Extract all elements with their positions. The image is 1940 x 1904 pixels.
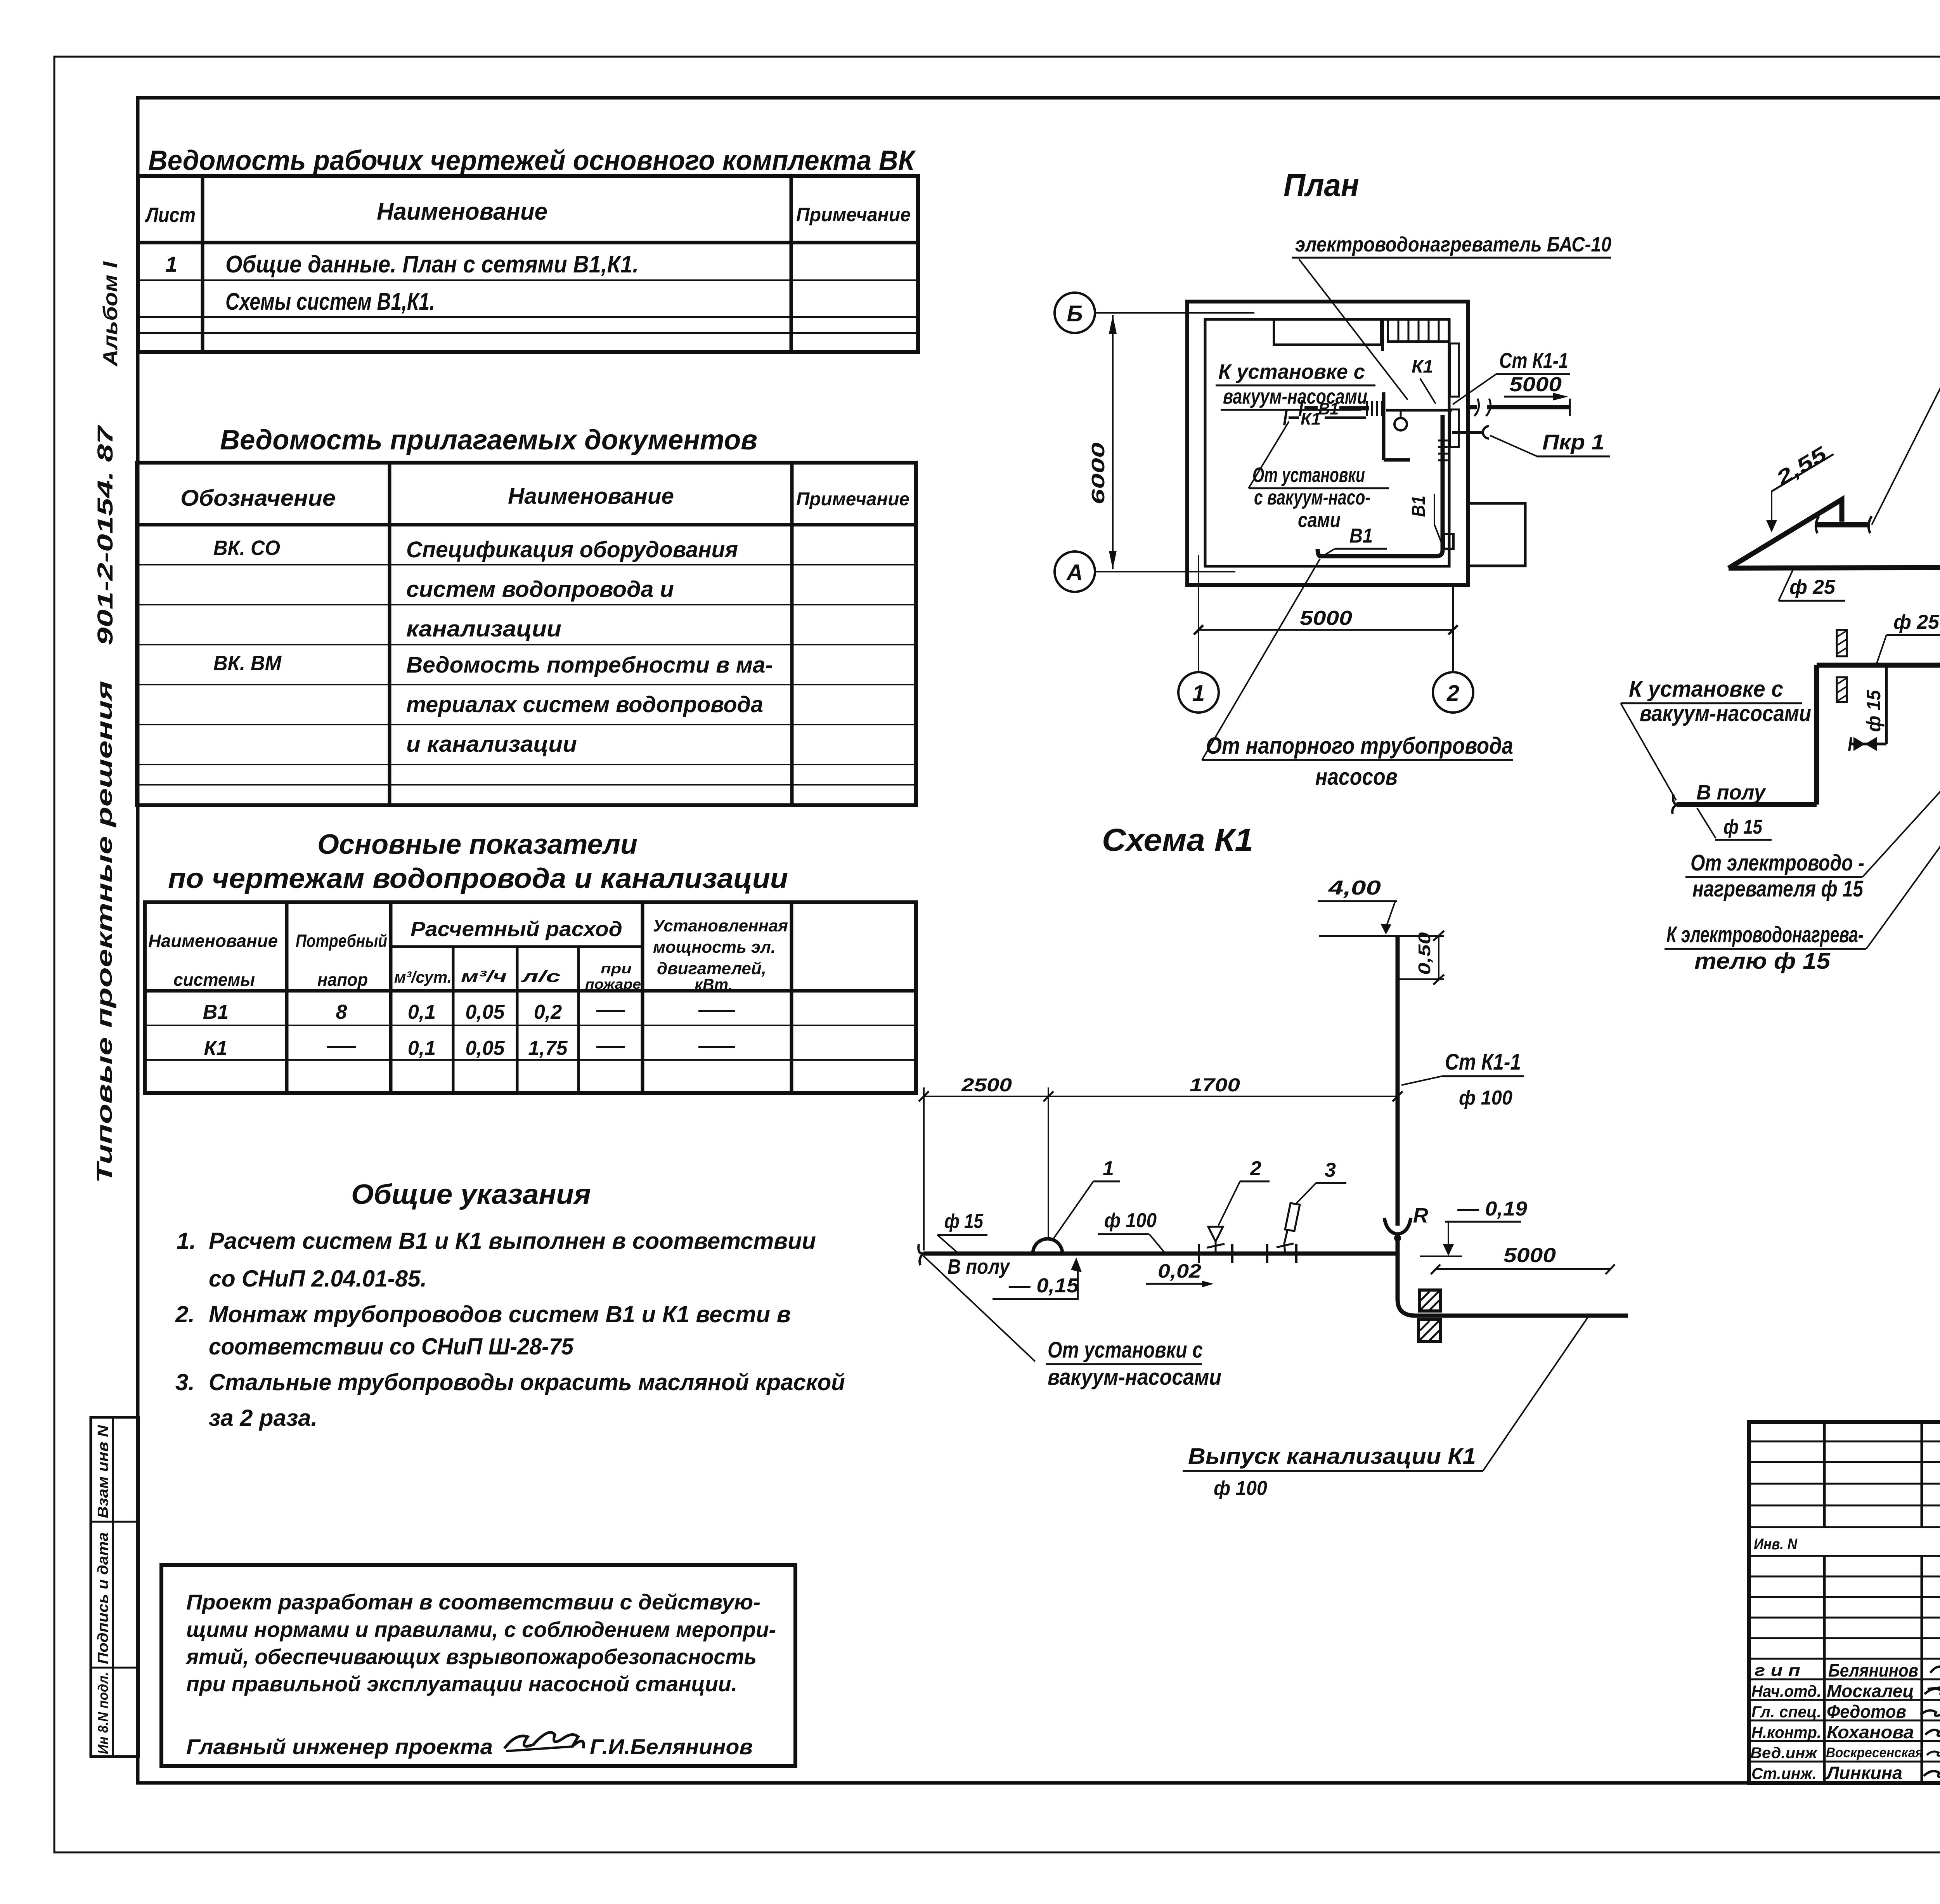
svg-text:От напорного трубопровода: От напорного трубопровода — [1206, 733, 1513, 759]
svg-text:8: 8 — [336, 1001, 347, 1023]
svg-text:0,50: 0,50 — [1415, 932, 1434, 975]
svg-text:Примечание: Примечание — [796, 204, 911, 225]
svg-text:— 0,19: — 0,19 — [1457, 1198, 1527, 1220]
right wall pilaster upper — [1450, 343, 1459, 397]
svg-text:1700: 1700 — [1190, 1075, 1240, 1096]
svg-text:ф 25: ф 25 — [1789, 576, 1836, 598]
svg-text:за 2 раза.: за 2 раза. — [209, 1405, 317, 1431]
svg-text:0,05: 0,05 — [465, 1001, 505, 1023]
right wall pilaster lower — [1450, 409, 1459, 447]
svg-text:Москалец: Москалец — [1827, 1681, 1914, 1701]
svg-text:нагревателя ф 15: нагревателя ф 15 — [1692, 876, 1864, 902]
В полу horizontal ф15 — [1677, 802, 1817, 807]
svg-text:ф 100: ф 100 — [1104, 1209, 1157, 1232]
svg-text:телю ф 15: телю ф 15 — [1694, 949, 1831, 974]
stack lower part and outlet bend — [1398, 1236, 1628, 1316]
svg-text:ф 15: ф 15 — [1723, 816, 1763, 838]
svg-text:Нач.отд.: Нач.отд. — [1751, 1682, 1821, 1700]
svg-text:0,02: 0,02 — [1158, 1260, 1201, 1282]
svg-text:А: А — [1066, 560, 1083, 585]
svg-text:5000: 5000 — [1509, 373, 1562, 396]
svg-text:R: R — [1413, 1204, 1428, 1227]
label B1 rotated on riser — [1408, 496, 1429, 517]
svg-text:1: 1 — [1192, 681, 1205, 706]
svg-text:со СНиП 2.04.01-85.: со СНиП 2.04.01-85. — [209, 1266, 427, 1292]
porch right side — [1468, 503, 1525, 566]
svg-text:К1: К1 — [204, 1037, 228, 1060]
svg-text:2: 2 — [1250, 1157, 1261, 1180]
stamp label: Взам инв N — [95, 1424, 111, 1518]
wall pass hatch upper — [1837, 630, 1847, 656]
svg-text:Воскресенская: Воскресенская — [1826, 1744, 1923, 1760]
svg-text:6000: 6000 — [1088, 442, 1108, 505]
svg-text:К установке с: К установке с — [1218, 360, 1365, 383]
svg-text:систем водопровода и: систем водопровода и — [406, 577, 674, 602]
svg-text:сами: сами — [1298, 508, 1341, 532]
svg-text:Типовые проектные решения: Типовые проектные решения — [92, 681, 116, 1183]
bench along top wall — [1274, 319, 1381, 345]
svg-text:г и п: г и п — [1755, 1661, 1800, 1679]
svg-text:Альбом I: Альбом I — [99, 261, 122, 367]
svg-text:От электроводо -: От электроводо - — [1691, 850, 1864, 876]
svg-text:м³/сут.: м³/сут. — [394, 968, 452, 986]
svg-text:ф 25: ф 25 — [1893, 611, 1940, 633]
left vertical drop — [1814, 665, 1819, 805]
svg-text:Коханова: Коханова — [1827, 1722, 1914, 1742]
svg-text:Выпуск канализации К1: Выпуск канализации К1 — [1188, 1444, 1476, 1469]
svg-text:Основные показатели: Основные показатели — [317, 829, 637, 860]
pipe B1 in plan — [1304, 406, 1318, 411]
svg-text:ф 100: ф 100 — [1459, 1087, 1512, 1109]
K1 pipe to wall — [1386, 409, 1452, 412]
svg-text:мощность эл.: мощность эл. — [653, 938, 776, 957]
svg-text:электроводонагреватель БАС-10: электроводонагреватель БАС-10 — [1295, 233, 1611, 256]
svg-text:Монтаж трубопроводов систе: Монтаж трубопроводов систем В1 и К1 вест… — [209, 1301, 791, 1327]
axis circle А — [1055, 551, 1095, 592]
svg-text:ВК. СО: ВК. СО — [213, 536, 280, 560]
svg-text:В полу: В полу — [1696, 781, 1767, 804]
dim 5000 outlet — [1436, 1268, 1610, 1270]
sidebar label: Альбом I — [99, 261, 122, 367]
stack top tick — [1319, 935, 1444, 937]
svg-text:Б: Б — [1067, 301, 1083, 326]
svg-text:Общие данные. План с сетями: Общие данные. План с сетями В1,К1. — [225, 251, 639, 278]
svg-text:3.: 3. — [175, 1369, 195, 1395]
wall hatch square upper — [1419, 1290, 1440, 1311]
svg-text:Примечание: Примечание — [796, 489, 909, 510]
svg-text:В полу: В полу — [947, 1255, 1011, 1278]
svg-text:От установки: От установки — [1252, 463, 1365, 487]
svg-text:Ин 8.N подл.: Ин 8.N подл. — [95, 1672, 111, 1754]
boxed project note — [161, 1565, 795, 1766]
svg-text:териалах систем водопровода: териалах систем водопровода — [406, 692, 763, 717]
B1 supply from outside — [1468, 405, 1477, 409]
svg-text:щими нормами и правилами, с: щими нормами и правилами, с соблюдением … — [186, 1617, 776, 1642]
axis circle 1 — [1178, 672, 1219, 713]
svg-text:4,00: 4,00 — [1328, 877, 1381, 899]
svg-text:План: План — [1284, 168, 1359, 203]
dim line 2500 / 1700 — [924, 1096, 1398, 1097]
svg-text:по чертежам водопровода и: по чертежам водопровода и канализации — [168, 863, 788, 894]
title block left rows — [1749, 1441, 1940, 1443]
radiator hatch top right — [1388, 319, 1449, 342]
svg-text:2: 2 — [1446, 681, 1459, 706]
dim 5000 bottom — [1199, 629, 1453, 631]
svg-text:м³/ч: м³/ч — [461, 967, 507, 985]
svg-text:Ст К1-1: Ст К1-1 — [1499, 348, 1568, 373]
svg-text:Ведомость прилагаемых докуме: Ведомость прилагаемых документов — [220, 425, 757, 456]
svg-text:пожаре: пожаре — [585, 976, 641, 992]
svg-text:2.: 2. — [175, 1301, 195, 1327]
svg-text:1.: 1. — [177, 1228, 196, 1254]
dim extension lines — [923, 1087, 925, 1250]
svg-text:Линкина: Линкина — [1826, 1763, 1902, 1783]
svg-text:3: 3 — [1325, 1159, 1336, 1181]
svg-text:ф 15: ф 15 — [944, 1210, 984, 1233]
svg-text:Инв. N: Инв. N — [1754, 1536, 1798, 1553]
flag symbol 3 — [1285, 1203, 1300, 1231]
svg-text:Гл. спец.: Гл. спец. — [1751, 1703, 1821, 1721]
svg-text:Ведомость потребности в ма-: Ведомость потребности в ма- — [406, 652, 773, 678]
vent symbol 2 — [1208, 1227, 1223, 1242]
svg-text:К1: К1 — [1301, 409, 1321, 428]
svg-text:1: 1 — [165, 252, 177, 276]
plan outer wall — [1187, 302, 1468, 585]
svg-text:К установке с: К установке с — [1629, 676, 1783, 702]
table 3: основные показатели — [145, 902, 916, 1093]
svg-text:5000: 5000 — [1503, 1244, 1556, 1267]
sidebar label: 901-2-0154.87 — [93, 425, 117, 645]
plan inner wall — [1205, 319, 1449, 566]
svg-text:напор: напор — [317, 969, 368, 990]
svg-text:при: при — [601, 961, 632, 976]
svg-text:ф 15: ф 15 — [1863, 690, 1885, 732]
svg-text:0,1: 0,1 — [408, 1001, 436, 1023]
svg-text:0,05: 0,05 — [465, 1037, 505, 1060]
svg-text:Ст.инж.: Ст.инж. — [1751, 1764, 1817, 1783]
svg-text:Федотов: Федотов — [1827, 1701, 1906, 1722]
stamp label: Инв N подл — [95, 1672, 111, 1754]
svg-text:ВК. ВМ: ВК. ВМ — [213, 652, 282, 675]
svg-text:Спецификация оборудования: Спецификация оборудования — [406, 537, 738, 562]
svg-text:л/с: л/с — [521, 967, 561, 985]
svg-text:Стальные трубопроводы окра: Стальные трубопроводы окрасить масляной … — [209, 1369, 845, 1395]
svg-text:Ведомость рабочих чертежей осн: Ведомость рабочих чертежей основного ком… — [148, 145, 916, 176]
svg-text:Взам инв N: Взам инв N — [95, 1424, 111, 1518]
table 1: ведомость рабочих чертежей — [138, 176, 918, 352]
svg-text:Общие указания: Общие указания — [351, 1179, 591, 1210]
svg-text:Пкр 1: Пкр 1 — [1542, 430, 1604, 454]
svg-text:Ст К1-1: Ст К1-1 — [1445, 1049, 1521, 1075]
label ф15 rotated — [1863, 690, 1885, 732]
wall hatch square lower — [1419, 1320, 1441, 1341]
signature squiggle — [504, 1732, 584, 1748]
svg-text:5000: 5000 — [1300, 607, 1352, 629]
svg-text:В1: В1 — [1349, 525, 1373, 547]
svg-text:насосов: насосов — [1315, 764, 1398, 790]
svg-text:вакуум-насосами: вакуум-насосами — [1223, 385, 1367, 408]
svg-text:Н.контр.: Н.контр. — [1751, 1723, 1821, 1741]
svg-text:Лист: Лист — [145, 203, 196, 227]
svg-text:системы: системы — [173, 969, 255, 990]
cleanout dome 1 — [1033, 1239, 1062, 1254]
pump connection bar — [1817, 522, 1869, 527]
svg-text:— 0,15: — 0,15 — [1008, 1275, 1079, 1297]
svg-text:В1: В1 — [203, 1001, 229, 1023]
svg-text:с вакуум-насо-: с вакуум-насо- — [1254, 486, 1370, 509]
svg-text:Белянинов: Белянинов — [1828, 1660, 1918, 1680]
table 2: ведомость прилагаемых документов — [137, 463, 916, 805]
B1 riser along right wall — [1318, 415, 1443, 556]
svg-text:1,75: 1,75 — [528, 1037, 568, 1060]
svg-text:К электроводонагрева-: К электроводонагрева- — [1666, 922, 1864, 947]
svg-text:соответствии со СНиП Ш-28-: соответствии со СНиП Ш-28-75 — [209, 1333, 574, 1360]
dim 6000 vertical — [1112, 315, 1114, 569]
svg-text:канализации: канализации — [406, 616, 561, 642]
axis circle 2 — [1433, 672, 1473, 713]
svg-text:вакуум-насосами: вакуум-насосами — [1048, 1365, 1221, 1390]
svg-text:В1: В1 — [1408, 496, 1429, 517]
svg-text:1: 1 — [1103, 1157, 1114, 1180]
svg-text:ф 100: ф 100 — [1214, 1477, 1267, 1500]
axis circle Б — [1055, 293, 1095, 333]
stack СтК1-1 vertical — [1396, 936, 1400, 1226]
svg-text:0,2: 0,2 — [534, 1001, 562, 1023]
stamp label: Подпись и дата — [95, 1532, 111, 1664]
axis lines — [1095, 312, 1254, 314]
svg-text:Наименование: Наименование — [508, 484, 674, 509]
svg-text:Наименование: Наименование — [148, 931, 278, 951]
B1 pipe: 2.55 level diagonal and riser nub — [1729, 499, 1842, 568]
svg-text:901-2-0154. 87: 901-2-0154. 87 — [93, 425, 117, 645]
svg-text:Схема К1: Схема К1 — [1102, 822, 1253, 858]
label 2,55 — [1772, 442, 1831, 490]
title block outer — [1749, 1422, 1940, 1783]
svg-text:Схемы систем В1,К1.: Схемы систем В1,К1. — [225, 288, 435, 315]
svg-text:Потребный: Потребный — [296, 931, 387, 951]
svg-text:Вед.инж: Вед.инж — [1750, 1744, 1818, 1762]
svg-text:при правильной эксплуатации: при правильной эксплуатации насосной ста… — [186, 1672, 737, 1696]
svg-text:Главный инженер проекта: Главный инженер проекта — [186, 1734, 493, 1759]
thread fitting cluster — [1366, 401, 1368, 416]
svg-text:0,1: 0,1 — [408, 1037, 436, 1060]
svg-text:От установки с: От установки с — [1048, 1337, 1203, 1363]
pipe K1 in plan — [1289, 416, 1299, 419]
title block vertical lines left section — [1823, 1422, 1826, 1527]
revision trap R symbol — [1384, 1218, 1411, 1234]
svg-text:кВт.: кВт. — [695, 975, 733, 994]
svg-text:Расчетный расход: Расчетный расход — [411, 917, 622, 941]
svg-text:К1: К1 — [1412, 356, 1433, 376]
signatures squiggles — [1930, 1666, 1940, 1673]
Пкр1 fitting through wall — [1452, 431, 1483, 434]
sidebar label: Типовые проектные решения — [92, 681, 116, 1183]
svg-text:вакуум-насосами: вакуум-насосами — [1640, 701, 1811, 726]
svg-text:Г.И.Белянинов: Г.И.Белянинов — [590, 1734, 753, 1759]
wall pass hatch lower — [1837, 677, 1847, 702]
svg-text:Установленная: Установленная — [653, 916, 788, 935]
svg-text:ятий, обеспечивающих взрывопо: ятий, обеспечивающих взрывопожаробезопас… — [185, 1644, 757, 1669]
ф15 wall stub with valve — [1885, 665, 1888, 744]
B1 pipe: lower horizontal + up diagonal + vertical — [1729, 478, 1940, 757]
svg-text:Обозначение: Обозначение — [180, 486, 336, 511]
threads on riser — [1438, 440, 1448, 442]
svg-text:Проект разработан в соответ: Проект разработан в соответствии с дейст… — [186, 1590, 760, 1614]
svg-text:и канализации: и канализации — [406, 732, 577, 757]
svg-text:Подпись и дата: Подпись и дата — [95, 1532, 111, 1664]
K1 main pipe — [923, 1252, 1396, 1256]
joint ticks on pipe — [1198, 1244, 1200, 1263]
svg-text:Наименование: Наименование — [377, 198, 547, 225]
main horizontal ф25 line — [1817, 663, 1940, 668]
sidebar stamp box — [91, 1417, 139, 1757]
dim 0,50 — [1438, 936, 1439, 979]
electric water heater — [1382, 392, 1386, 460]
svg-text:Расчет систем В1 и К1 вып: Расчет систем В1 и К1 выполнен в соответ… — [209, 1228, 816, 1254]
svg-text:2500: 2500 — [961, 1075, 1012, 1096]
